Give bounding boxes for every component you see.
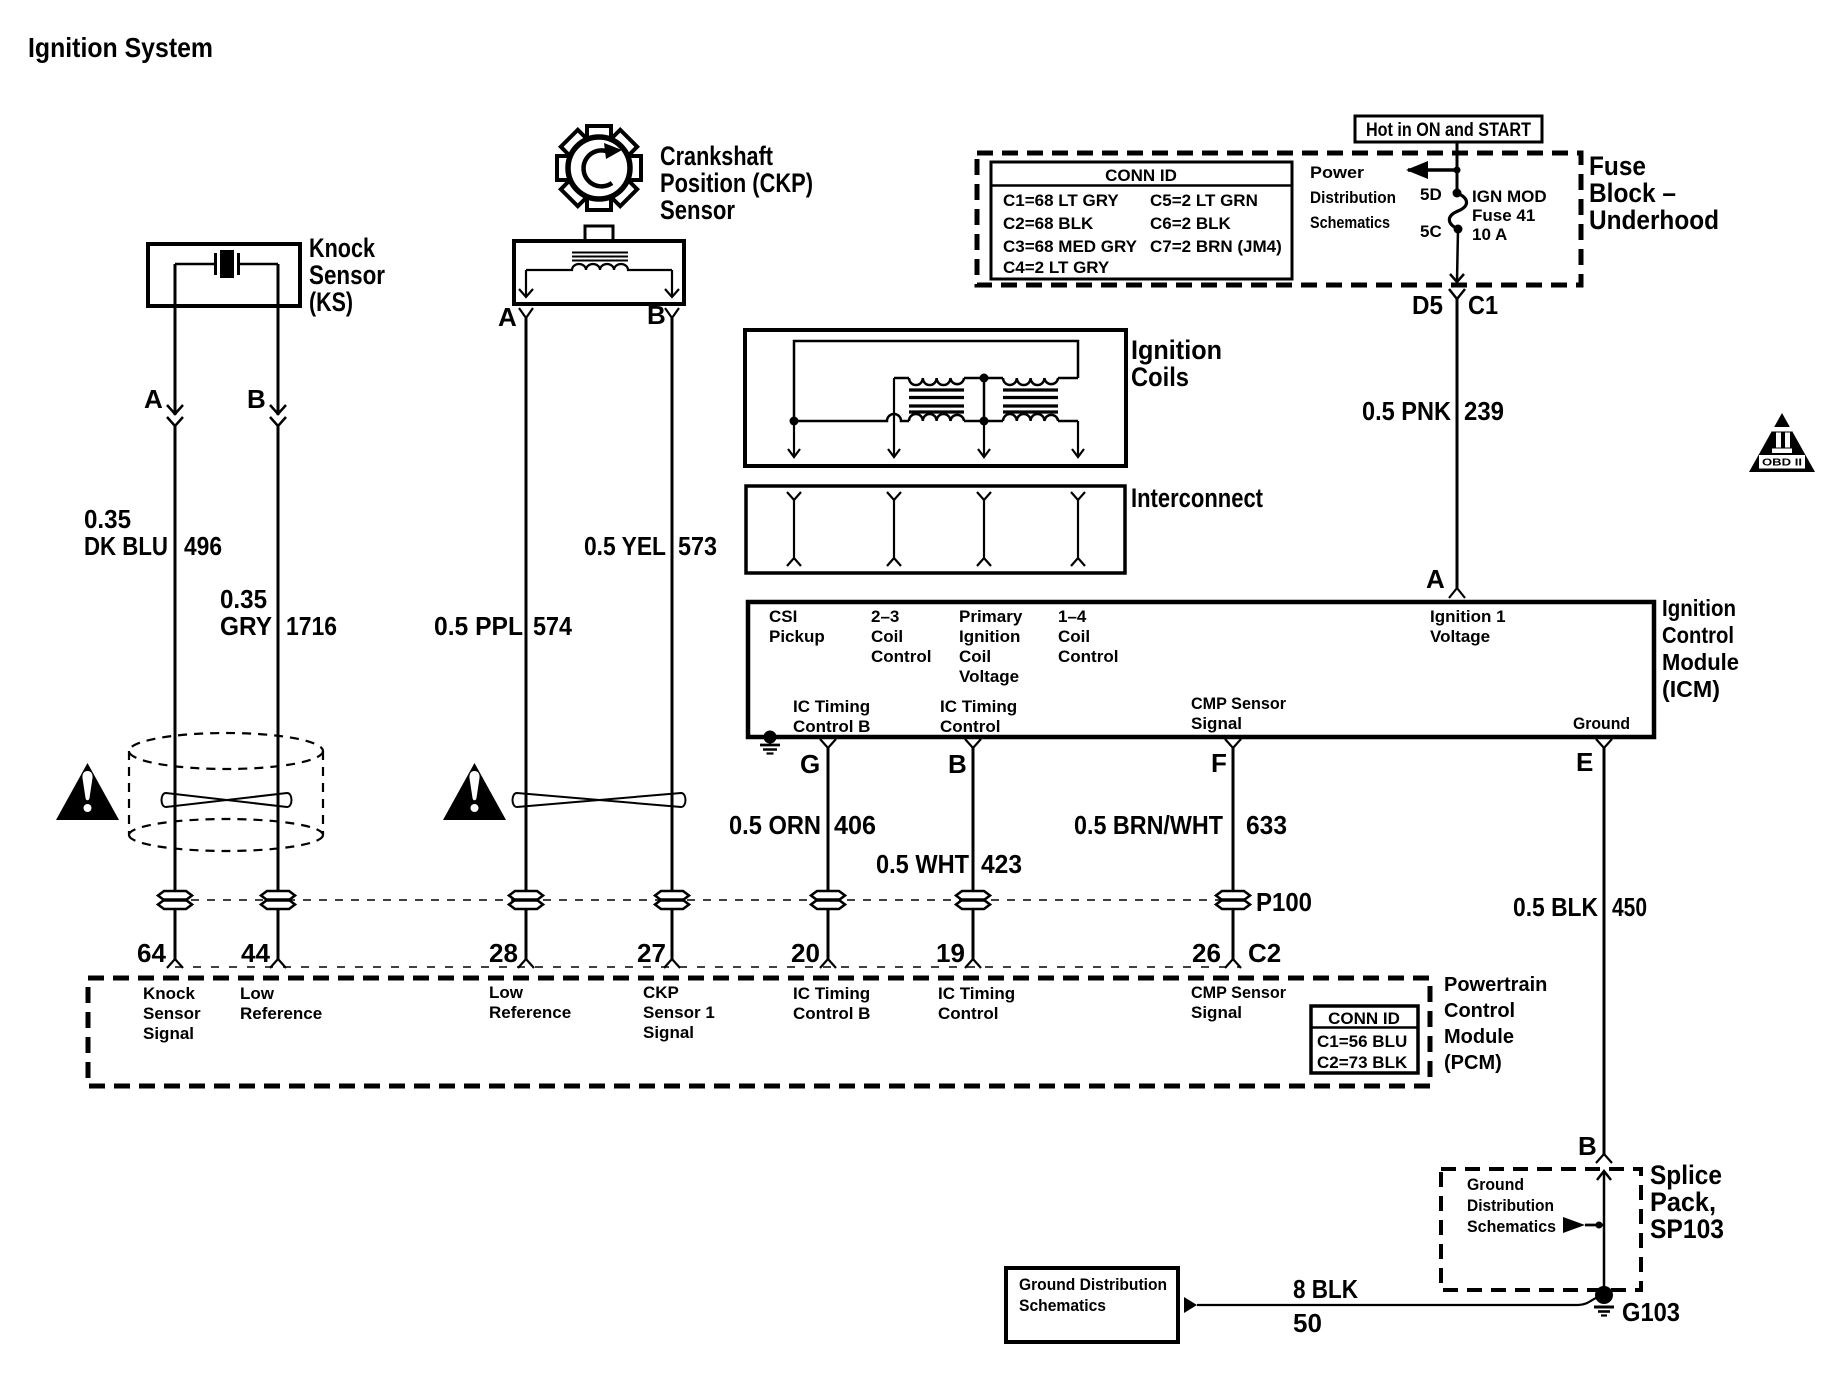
warning triangle 1 [56, 763, 119, 820]
svg-text:C1=56 BLU: C1=56 BLU [1317, 1032, 1407, 1051]
svg-text:Control: Control [940, 717, 1000, 736]
svg-text:OBD II: OBD II [1762, 458, 1802, 469]
svg-text:496: 496 [184, 531, 222, 561]
arrow to power distribution [1406, 161, 1461, 179]
svg-text:C2=68 BLK: C2=68 BLK [1003, 214, 1094, 233]
wire CKP-B to PCM [671, 909, 674, 959]
svg-text:Control: Control [938, 1004, 998, 1023]
svg-text:19: 19 [936, 938, 965, 968]
inline connector (KS-B wire) [261, 891, 295, 909]
coils interior wiring [794, 341, 1078, 421]
splice G103 dot [1595, 1286, 1613, 1304]
ICM label [1662, 595, 1739, 702]
svg-text:Control: Control [871, 647, 931, 666]
svg-text:Coil: Coil [1058, 627, 1090, 646]
wire G to PCM [827, 909, 830, 959]
wire label 0.5 PPL 574 [434, 611, 572, 641]
svg-text:D5: D5 [1412, 290, 1443, 320]
power distribution schematics note [1310, 163, 1396, 232]
svg-text:SP103: SP103 [1650, 1214, 1724, 1244]
svg-text:0.35: 0.35 [84, 504, 131, 534]
wire KS-A upper [174, 264, 177, 415]
inline connector (G wire) [811, 891, 845, 909]
CONN ID table (fuse block) [991, 162, 1292, 279]
wire B to PCM [972, 909, 975, 959]
svg-text:(ICM): (ICM) [1662, 676, 1720, 702]
wire CKP-A to PCM [525, 909, 528, 959]
svg-text:Ignition: Ignition [1131, 335, 1222, 365]
svg-text:0.5 PNK: 0.5 PNK [1362, 396, 1451, 426]
svg-text:Ignition 1: Ignition 1 [1430, 607, 1506, 626]
svg-text:Pack,: Pack, [1650, 1187, 1716, 1217]
svg-text:0.5 YEL: 0.5 YEL [584, 531, 666, 561]
wire ICM-G [827, 748, 830, 892]
svg-text:5D: 5D [1420, 185, 1442, 204]
PCM pin name texts [143, 983, 1286, 1043]
up arrow on splice wire [1597, 1171, 1611, 1295]
wire label 0.35 GRY 1716 [220, 584, 337, 641]
CKP core + coil [519, 253, 679, 298]
svg-text:Power: Power [1310, 163, 1364, 182]
wire CKP-B [671, 318, 674, 892]
ignition coils box [745, 330, 1126, 466]
svg-text:64: 64 [137, 938, 166, 968]
splice pack label [1650, 1160, 1724, 1244]
wire label 0.5 BRN/WHT 633 [1074, 810, 1287, 840]
svg-text:IC Timing: IC Timing [793, 697, 870, 716]
svg-text:Voltage: Voltage [1430, 627, 1490, 646]
svg-text:A: A [1426, 564, 1445, 594]
PCM dashed box [88, 978, 1430, 1086]
inline connector (B wire) [956, 891, 990, 909]
arrow from note to splice wire [1563, 1217, 1604, 1233]
ICM pin name texts [769, 607, 1630, 736]
svg-text:DK BLU: DK BLU [84, 531, 168, 561]
wire fuse down + arrow [1450, 229, 1464, 282]
arrow out of ground distribution box [1184, 1297, 1197, 1313]
wire label 0.5 WHT 423 [876, 849, 1022, 879]
svg-text:Knock: Knock [309, 233, 375, 263]
svg-text:C5=2 LT GRN: C5=2 LT GRN [1150, 191, 1258, 210]
wire label 0.35 DK BLU 496 [84, 504, 222, 561]
wire KS-B to PCM [277, 909, 280, 959]
coil core laminations [909, 390, 1058, 412]
PCM pin fork 26 [1225, 959, 1241, 968]
svg-text:406: 406 [834, 810, 876, 840]
OBD II symbol [1749, 413, 1815, 472]
warning triangle 2 [443, 763, 506, 820]
svg-text:Powertrain: Powertrain [1444, 974, 1547, 996]
svg-text:CMP Sensor: CMP Sensor [1191, 983, 1286, 1002]
svg-text:Sensor: Sensor [660, 195, 735, 225]
svg-text:Control B: Control B [793, 717, 870, 736]
PCM pin fork 44 [270, 959, 286, 968]
svg-text:Crankshaft: Crankshaft [660, 141, 773, 171]
svg-text:Schematics: Schematics [1019, 1296, 1106, 1315]
svg-text:Distribution: Distribution [1310, 188, 1396, 207]
svg-text:1–4: 1–4 [1058, 607, 1087, 626]
connector chevrons KS-B [270, 405, 286, 426]
bulkhead connector dashed line [175, 899, 1233, 901]
ICM case ground [760, 731, 780, 754]
svg-text:Ground: Ground [1467, 1175, 1524, 1194]
wire KS-B lower [277, 424, 280, 892]
svg-text:Low: Low [489, 983, 524, 1002]
svg-text:Primary: Primary [959, 607, 1023, 626]
svg-text:CMP Sensor: CMP Sensor [1191, 694, 1286, 713]
svg-text:1716: 1716 [286, 611, 337, 641]
svg-text:C7=2 BRN (JM4): C7=2 BRN (JM4) [1150, 237, 1282, 256]
PCM label [1444, 974, 1547, 1074]
svg-text:Low: Low [240, 984, 275, 1003]
svg-text:Reference: Reference [240, 1004, 322, 1023]
Hot in ON and START box [1355, 116, 1542, 142]
splice input fork B [1596, 1154, 1612, 1163]
svg-text:44: 44 [241, 938, 270, 968]
svg-text:Sensor: Sensor [143, 1004, 201, 1023]
svg-text:0.5 PPL: 0.5 PPL [434, 611, 523, 641]
svg-text:Fuse: Fuse [1589, 151, 1646, 181]
svg-text:Coils: Coils [1131, 362, 1189, 392]
ICM pin fork F [1225, 739, 1241, 748]
svg-text:Schematics: Schematics [1310, 213, 1390, 232]
fuse block underhood dashed box [977, 153, 1581, 285]
svg-text:Ignition: Ignition [959, 627, 1020, 646]
svg-text:Ground: Ground [1573, 714, 1630, 733]
svg-text:Ignition System: Ignition System [28, 32, 213, 63]
svg-text:Control: Control [1058, 647, 1118, 666]
svg-text:F: F [1211, 748, 1227, 778]
svg-text:CONN ID: CONN ID [1328, 1009, 1400, 1028]
svg-text:GRY: GRY [220, 611, 272, 641]
inline connector (CKP-B wire) [655, 891, 689, 909]
svg-text:B: B [247, 384, 266, 414]
svg-text:20: 20 [791, 938, 820, 968]
coil junction dots [790, 374, 989, 426]
ground symbol G103 [1594, 1307, 1614, 1316]
svg-text:B: B [1578, 1131, 1597, 1161]
CKP sensor box [514, 226, 684, 304]
svg-text:Underhood: Underhood [1589, 205, 1719, 235]
svg-text:Fuse 41: Fuse 41 [1472, 206, 1535, 225]
svg-text:B: B [647, 300, 666, 330]
svg-text:Block –: Block – [1589, 178, 1676, 208]
interconnect box [746, 486, 1125, 573]
inline connector P100 (F wire) [1216, 891, 1250, 909]
ground distribution note (in splice box) [1467, 1175, 1556, 1236]
svg-text:C2=73 BLK: C2=73 BLK [1317, 1053, 1408, 1072]
svg-text:50: 50 [1293, 1308, 1322, 1338]
wire ICM-F [1232, 748, 1235, 892]
fuse IGN MOD Fuse 41 10A [1420, 185, 1547, 244]
wire KS-A to PCM [174, 909, 177, 959]
PCM pin fork 28 [518, 959, 534, 968]
svg-text:Sensor: Sensor [309, 260, 385, 290]
svg-text:28: 28 [489, 938, 518, 968]
svg-text:27: 27 [637, 938, 666, 968]
svg-text:0.5 WHT: 0.5 WHT [876, 849, 969, 879]
twisted pair symbol KS [162, 793, 292, 807]
wire label 0.5 BLK 450 [1513, 892, 1647, 922]
svg-text:CSI: CSI [769, 607, 797, 626]
wire label 0.5 ORN 406 [729, 810, 876, 840]
svg-text:Position (CKP): Position (CKP) [660, 168, 813, 198]
svg-text:B: B [948, 749, 967, 779]
svg-text:26: 26 [1192, 938, 1221, 968]
PCM pin fork 27 [664, 959, 680, 968]
svg-text:0.35: 0.35 [220, 584, 267, 614]
svg-text:Reference: Reference [489, 1003, 571, 1022]
svg-text:8 BLK: 8 BLK [1293, 1274, 1358, 1304]
shield (dashed cylinder) around KS pair [129, 733, 323, 851]
svg-text:C1: C1 [1468, 290, 1498, 320]
svg-text:G: G [800, 749, 820, 779]
inline connector (KS-A wire) [158, 891, 192, 909]
svg-text:10 A: 10 A [1472, 225, 1507, 244]
twisted pair symbol CKP [513, 793, 686, 807]
ICM pin fork G [820, 739, 836, 748]
svg-text:633: 633 [1246, 810, 1287, 840]
svg-text:Control: Control [1662, 622, 1734, 648]
knock sensor KS box [148, 244, 300, 306]
svg-text:Signal: Signal [643, 1023, 694, 1042]
svg-text:Ignition: Ignition [1662, 595, 1736, 621]
PCM pin fork 19 [965, 959, 981, 968]
svg-text:239: 239 [1464, 396, 1504, 426]
svg-text:Signal: Signal [143, 1024, 194, 1043]
svg-text:IGN MOD: IGN MOD [1472, 187, 1547, 206]
svg-text:Signal: Signal [1191, 714, 1242, 733]
svg-text:Schematics: Schematics [1467, 1217, 1556, 1236]
svg-text:A: A [498, 302, 517, 332]
svg-text:Interconnect: Interconnect [1131, 483, 1263, 513]
svg-text:Voltage: Voltage [959, 667, 1019, 686]
wire ICM-E ground 0.5 BLK 450 [1603, 748, 1606, 1154]
ICM pin fork B [965, 739, 981, 748]
CKP gear icon [557, 126, 641, 210]
svg-text:A: A [144, 384, 163, 414]
svg-text:450: 450 [1612, 892, 1647, 922]
wire 0.5 PNK 239 [1456, 299, 1459, 588]
wire CKP-A [525, 318, 528, 892]
svg-text:Ground Distribution: Ground Distribution [1019, 1275, 1167, 1294]
svg-text:0.5 BLK: 0.5 BLK [1513, 892, 1598, 922]
splice pack dashed box [1441, 1169, 1641, 1290]
wire from hot box to fuse [1456, 142, 1459, 193]
svg-text:C1=68 LT GRY: C1=68 LT GRY [1003, 191, 1119, 210]
svg-text:Module: Module [1662, 649, 1739, 675]
svg-text:574: 574 [533, 611, 572, 641]
svg-text:(KS): (KS) [309, 287, 353, 317]
wire 8 BLK 50 [1197, 1296, 1600, 1305]
wire KS-A lower [174, 424, 177, 892]
svg-text:P100: P100 [1256, 887, 1312, 917]
svg-text:C3=68 MED GRY: C3=68 MED GRY [1003, 237, 1138, 256]
svg-text:Signal: Signal [1191, 1003, 1242, 1022]
wire ICM-B [972, 748, 975, 892]
CONN ID table (PCM) [1311, 1006, 1418, 1073]
connector chevrons KS-A [167, 405, 183, 426]
svg-text:423: 423 [981, 849, 1022, 879]
wire F to PCM [1232, 909, 1235, 959]
interconnect pass-through wires [787, 492, 1085, 566]
ICM box [748, 602, 1654, 737]
svg-text:Distribution: Distribution [1467, 1196, 1554, 1215]
svg-text:C2: C2 [1248, 938, 1281, 968]
PCM pin fork 64 [167, 959, 183, 968]
svg-text:Control B: Control B [793, 1004, 870, 1023]
CKP pin forks A/B [519, 308, 679, 318]
svg-text:5C: 5C [1420, 222, 1442, 241]
pin fork A into ICM [1449, 588, 1465, 598]
svg-text:G103: G103 [1622, 1297, 1680, 1327]
svg-text:E: E [1576, 747, 1593, 777]
svg-text:0.5 BRN/WHT: 0.5 BRN/WHT [1074, 810, 1223, 840]
svg-text:Coil: Coil [871, 627, 903, 646]
svg-text:2–3: 2–3 [871, 607, 899, 626]
KS label [309, 233, 385, 317]
PCM connector dashed line [175, 966, 1240, 968]
wire KS-B upper [277, 264, 280, 415]
svg-text:Pickup: Pickup [769, 627, 825, 646]
svg-text:IC Timing: IC Timing [793, 984, 870, 1003]
ICM pin fork E [1596, 739, 1612, 748]
svg-text:C4=2 LT GRY: C4=2 LT GRY [1003, 258, 1110, 277]
PCM pin fork 20 [820, 959, 836, 968]
svg-text:0.5 ORN: 0.5 ORN [729, 810, 821, 840]
svg-text:IC Timing: IC Timing [938, 984, 1015, 1003]
svg-text:CKP: CKP [643, 983, 679, 1002]
svg-text:C6=2 BLK: C6=2 BLK [1150, 214, 1231, 233]
ground distribution schematics box [1006, 1268, 1178, 1342]
CKP sensor label [660, 141, 813, 225]
svg-text:(PCM): (PCM) [1444, 1052, 1502, 1074]
wire label 0.5 YEL 573 [584, 531, 717, 561]
svg-text:IC Timing: IC Timing [940, 697, 1017, 716]
coil output drops with arrows [788, 378, 1084, 457]
svg-text:Coil: Coil [959, 647, 991, 666]
svg-text:Hot in ON and START: Hot in ON and START [1366, 120, 1531, 141]
svg-text:Module: Module [1444, 1026, 1514, 1048]
fuse block label [1589, 151, 1719, 235]
inline connector (CKP-A wire) [509, 891, 543, 909]
connector D5/C1 fork [1449, 289, 1465, 299]
piezo element inside KS [175, 250, 278, 278]
svg-text:573: 573 [678, 531, 717, 561]
svg-text:CONN ID: CONN ID [1105, 166, 1177, 185]
svg-text:Control: Control [1444, 1000, 1515, 1022]
ignition coils label [1131, 335, 1222, 392]
svg-text:Splice: Splice [1650, 1160, 1722, 1190]
svg-text:Sensor 1: Sensor 1 [643, 1003, 715, 1022]
svg-text:Knock: Knock [143, 984, 196, 1003]
